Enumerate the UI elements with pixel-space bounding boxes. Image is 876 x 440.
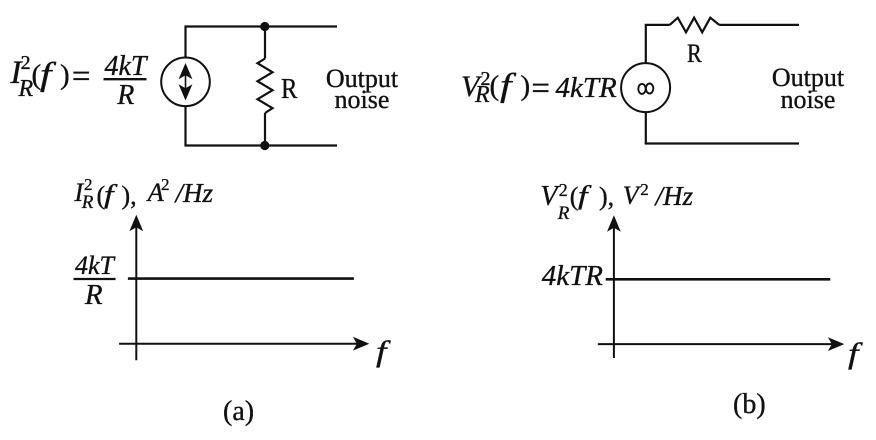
fraction bar of 4kT/R level label (a) [74,278,116,280]
wire top right segment (b) [719,24,799,26]
voltage source infinity symbol [638,84,653,94]
x-axis (a) [119,337,369,351]
wire bottom bus (a) [185,144,338,146]
voltage source circle (b) [621,63,670,112]
wire top bus (a) [185,25,338,27]
label R of resistor (a) [281,75,297,104]
current source circle (a) [161,58,210,107]
y-axis (b) [607,215,621,358]
current source double arrow [179,63,193,101]
label 4kT/R level (a) [0,0,876,1]
resistor R zigzag (b) [670,18,720,33]
wire resistor bottom lead (a) [264,113,266,146]
label y-axis V_R^2(f), V^2/Hz [0,0,876,1]
PSD level line (a) [128,277,354,280]
wire bottom bus (b) [645,142,799,144]
y-axis (a) [129,215,143,360]
label f x-axis (a) [376,337,386,367]
node junction dot top (a) [260,22,269,31]
wire source top lead (b) [646,25,670,63]
x-axis (b) [598,337,845,351]
PSD level line (b) [606,278,831,281]
wire left branch vertical (a) [184,27,186,58]
label f x-axis (b) [848,339,858,369]
node junction dot bottom (a) [260,141,269,150]
label y-axis I_R^2(f), A^2/Hz [0,0,876,1]
wire left branch vertical bottom (a) [184,106,186,145]
label equation I_R^2(f) = 4kT/R [0,0,876,1]
resistor R zigzag (a) [258,59,273,114]
label (a) [223,398,254,426]
wire source bottom lead (b) [645,112,647,143]
wire resistor top lead (a) [264,27,266,59]
label 4kTR level (b) [542,262,603,291]
label Output noise (a) [325,68,399,111]
fraction bar of equation (a) [104,78,147,80]
label (b) [733,391,766,419]
label equation V_R^2(f) = 4kTR [0,0,876,1]
label Output noise (b) [771,67,845,110]
label R of resistor (b) [687,41,702,67]
